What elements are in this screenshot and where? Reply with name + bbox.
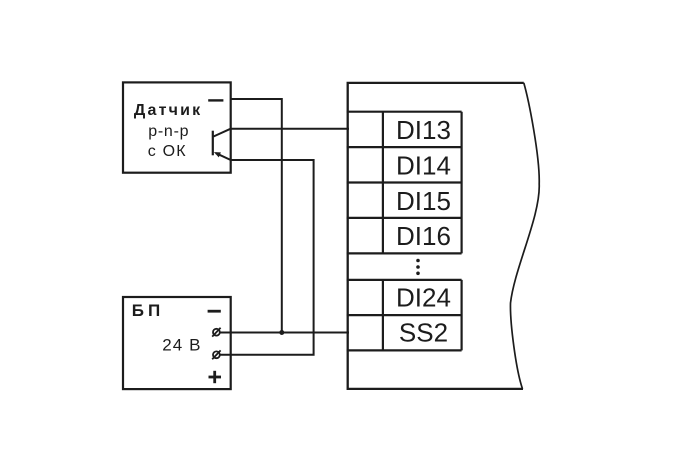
PSU screw terminal ø1 <box>212 328 220 337</box>
PSU plus terminal <box>209 371 222 383</box>
svg-text:DI14: DI14 <box>396 150 451 180</box>
wire: vertical drop from minus wire to junction <box>281 98 283 333</box>
terminal grid horizontal lines <box>347 112 462 351</box>
wire: PSU ø1 to SS2 terminal <box>220 332 349 334</box>
svg-text:Датчик: Датчик <box>134 102 202 119</box>
svg-text:с ОК: с ОК <box>148 143 187 160</box>
svg-text:p-n-p: p-n-p <box>148 123 189 140</box>
transistor collector stroke <box>214 129 231 137</box>
terminal cell divider column <box>383 112 462 351</box>
svg-text:SS2: SS2 <box>399 318 448 348</box>
device outline (left, top, bottom edges) <box>348 83 524 389</box>
transistor Q1 (p-n-p open collector) base bar <box>212 131 214 156</box>
sensor minus terminal <box>208 99 223 101</box>
svg-text:БП: БП <box>132 301 164 320</box>
PSU minus terminal <box>208 310 221 313</box>
svg-text:DI24: DI24 <box>396 282 451 312</box>
svg-text:24 В: 24 В <box>162 336 201 355</box>
svg-text:DI15: DI15 <box>396 186 451 216</box>
svg-text:DI13: DI13 <box>396 115 451 145</box>
sensor box Датчик <box>123 82 231 172</box>
transistor emitter stroke with arrow <box>216 153 231 160</box>
wire: PSU ø2 up to transistor emitter <box>220 160 313 355</box>
junction dot <box>279 330 284 335</box>
wire: sensor minus to junction (top horizontal) <box>231 98 282 100</box>
device torn right edge (wavy) <box>510 83 539 389</box>
wire: collector to DI13 <box>231 128 349 130</box>
PSU screw terminal ø2 <box>212 350 220 359</box>
svg-text:DI16: DI16 <box>396 221 451 251</box>
power supply box БП <box>123 297 231 389</box>
vertical ellipsis <box>416 259 420 275</box>
